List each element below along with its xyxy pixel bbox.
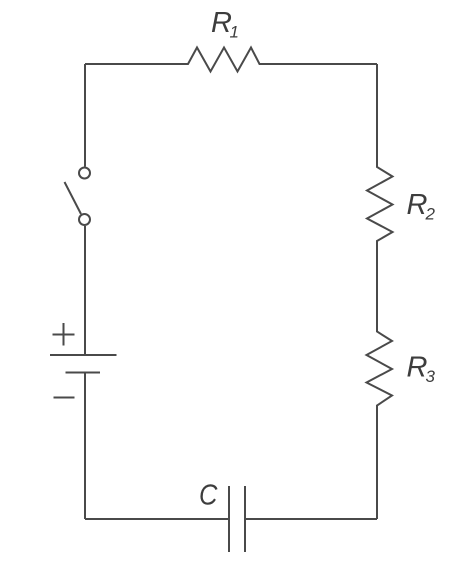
svg-text:R: R bbox=[407, 352, 428, 384]
svg-text:C: C bbox=[199, 478, 218, 511]
svg-text:1: 1 bbox=[230, 23, 239, 42]
svg-text:2: 2 bbox=[425, 205, 436, 224]
svg-text:R: R bbox=[407, 189, 428, 221]
svg-text:3: 3 bbox=[426, 367, 436, 386]
